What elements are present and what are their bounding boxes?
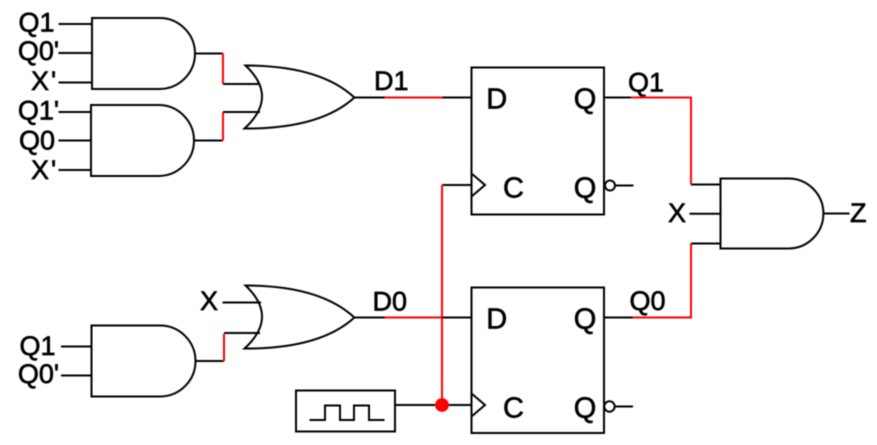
flip-flop FF2 box xyxy=(472,288,605,434)
wire D0 (red) xyxy=(385,317,442,319)
svg-text:': ' xyxy=(51,66,56,96)
svg-text:Q0: Q0 xyxy=(630,286,666,316)
wire Q1 to A1 xyxy=(59,23,93,25)
wire FF1 Q output xyxy=(604,97,631,99)
wire X to O2 xyxy=(223,302,262,304)
wire X' to A1 xyxy=(59,82,93,84)
wire A4 output to Z xyxy=(823,213,849,215)
wire O1 to D1 net xyxy=(354,97,385,99)
wire jog A1 to O1 (red) xyxy=(222,54,224,85)
wire Q1' to A2 xyxy=(59,111,92,113)
and-gate A4 xyxy=(721,179,824,249)
FF1 Qbar bubble xyxy=(605,181,615,191)
wire Q1 into A4 xyxy=(691,184,721,186)
wire Q0 to A2 xyxy=(59,140,92,142)
svg-text:Q0': Q0' xyxy=(18,36,59,66)
wire FF2 Q output xyxy=(604,317,633,319)
svg-text:X: X xyxy=(668,198,686,228)
wire into O2 input2 xyxy=(224,332,260,334)
wire A3 output xyxy=(196,360,225,362)
CLK waveform xyxy=(310,406,385,421)
svg-text:Q1: Q1 xyxy=(19,331,55,361)
wire A2 output xyxy=(194,140,223,142)
wire X to A4 xyxy=(690,213,721,215)
svg-text:Q: Q xyxy=(574,393,597,425)
wire Q1 net (red) xyxy=(631,98,691,185)
wire D1 (red) xyxy=(385,97,442,99)
FF1 clock triangle xyxy=(472,174,486,197)
and-gate A1 xyxy=(92,18,195,89)
wire into O1 input2 xyxy=(223,111,260,113)
wire jog A3 to O2 (red) xyxy=(223,334,225,361)
svg-text:X: X xyxy=(31,155,49,185)
and-gate A2 xyxy=(91,105,194,176)
svg-text:Z: Z xyxy=(850,198,867,228)
svg-text:D: D xyxy=(486,84,507,116)
svg-text:C: C xyxy=(503,393,524,425)
wire X' to A2 xyxy=(59,169,92,171)
wire clock to FF1 C xyxy=(442,184,472,186)
svg-text:Q: Q xyxy=(574,173,597,205)
FF2 Qbar stub xyxy=(615,406,633,408)
svg-text:D0: D0 xyxy=(373,287,408,317)
wire into O1 input1 xyxy=(223,83,260,85)
svg-text:Q1': Q1' xyxy=(18,96,59,126)
flip-flop FF1 box xyxy=(472,68,605,215)
svg-text:Q: Q xyxy=(574,304,597,336)
svg-text:': ' xyxy=(51,155,56,185)
svg-text:Q1: Q1 xyxy=(628,68,664,98)
svg-text:Q: Q xyxy=(574,84,597,116)
junction node clock xyxy=(435,398,449,412)
svg-text:D: D xyxy=(486,304,507,336)
wire A1 output xyxy=(195,53,223,55)
wire Q0' to A3 xyxy=(61,375,92,377)
wire clock vertical (red) xyxy=(441,185,443,405)
FF2 clock triangle xyxy=(472,394,486,417)
wire D1 into FF1 D xyxy=(442,97,472,99)
svg-text:X: X xyxy=(31,66,49,96)
wire Q0' to A1 xyxy=(59,52,93,54)
svg-text:Q0: Q0 xyxy=(19,125,55,155)
wire Q0 into A4 xyxy=(691,243,721,245)
wire O2 to D0 net xyxy=(354,317,385,319)
and-gate A3 xyxy=(92,326,196,397)
clock generator CLK box xyxy=(296,391,395,432)
or-gate O1 xyxy=(245,66,355,129)
wire D0 into FF2 D xyxy=(442,317,472,319)
wire Q1 to A3 xyxy=(61,346,92,348)
svg-text:C: C xyxy=(503,173,524,205)
svg-text:X: X xyxy=(200,286,218,316)
wire CLK to FF2 C xyxy=(395,404,472,406)
FF1 Qbar stub xyxy=(615,185,634,187)
svg-text:Q1: Q1 xyxy=(18,7,54,37)
FF2 Qbar bubble xyxy=(604,401,614,411)
wire Q0 net (red) xyxy=(633,244,691,318)
svg-text:D1: D1 xyxy=(374,66,409,96)
or-gate O2 xyxy=(245,286,355,349)
svg-text:Q0': Q0' xyxy=(18,359,59,389)
wire jog A2 to O1 (red) xyxy=(222,112,224,141)
